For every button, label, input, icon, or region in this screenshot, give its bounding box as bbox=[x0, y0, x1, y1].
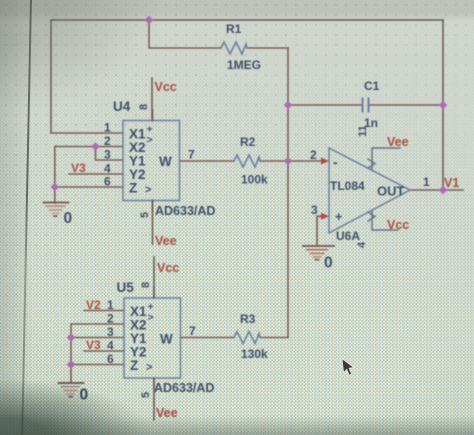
U4 pin number 7 bbox=[188, 148, 195, 162]
wire U5 pin2 bbox=[71, 324, 124, 382]
label R3 bbox=[240, 312, 256, 326]
wire U5 pin1 V2 bbox=[84, 310, 124, 312]
junction C1 right bbox=[439, 101, 447, 109]
op-amp U6A triangle bbox=[329, 148, 410, 233]
wire U5 Vee power bbox=[153, 378, 155, 420]
U5 pin number 6 bbox=[107, 352, 114, 366]
value 1n bbox=[364, 116, 378, 130]
U5 pin names bbox=[130, 304, 173, 373]
wire U5 pin6 bbox=[71, 364, 124, 366]
opamp pin number 2 bbox=[310, 148, 317, 162]
U4 pin number 2 bbox=[104, 134, 111, 148]
net label Vcc opamp bbox=[387, 218, 409, 232]
label OUT bbox=[377, 184, 405, 199]
junction inverting node bbox=[284, 157, 292, 165]
value 130k bbox=[241, 347, 268, 361]
wire U5 W to R3 bbox=[181, 337, 235, 339]
wire U4 W to R2 bbox=[180, 160, 235, 162]
multiplier U5 box bbox=[124, 298, 181, 378]
net label V2 U5 bbox=[86, 298, 101, 312]
wire R1 branch bbox=[149, 20, 288, 48]
label TL084 bbox=[330, 179, 365, 193]
wire R2 to opamp pin2 bbox=[260, 160, 322, 162]
wire opamp Vcc power bbox=[372, 210, 398, 230]
U5 X1 plus mark bbox=[148, 301, 154, 324]
wire middle vertical (R1/R3 to inverting node) bbox=[287, 48, 289, 338]
value 1MEG bbox=[227, 58, 261, 72]
ground U5 bbox=[59, 383, 84, 397]
U5 pin number 2 bbox=[107, 312, 114, 326]
wire opamp pin3 ground bbox=[317, 216, 322, 245]
wire U4 pin4 V3 bbox=[69, 173, 123, 175]
U5 pin number 5 rotated bbox=[140, 392, 152, 398]
mouse cursor bbox=[339, 356, 359, 380]
U5 pin number 8 rotated bbox=[140, 282, 152, 288]
net label Vcc U5 bbox=[157, 261, 179, 275]
resistor R3 bbox=[234, 332, 260, 344]
wire R3 to inverting node bbox=[260, 337, 288, 339]
junction U5 pin6 bbox=[67, 360, 75, 368]
wire U4 pin1 (X1 feedback) bbox=[51, 132, 123, 134]
U4 pin number 8 rotated bbox=[138, 104, 150, 110]
value 100k bbox=[241, 173, 268, 187]
wire U4 Vee power bbox=[152, 201, 154, 245]
junction U4 pin2 bbox=[91, 142, 99, 150]
label U5 bbox=[117, 280, 135, 295]
opamp plus mark bbox=[335, 210, 342, 224]
wire U5 pin3 bbox=[71, 337, 124, 339]
net label Vcc U4 bbox=[155, 80, 177, 94]
wire U5 Vcc power bbox=[153, 257, 155, 298]
wire U4 pin2 bbox=[55, 146, 123, 148]
opamp minus mark bbox=[333, 154, 338, 170]
part name AD633/AD U5 bbox=[154, 381, 214, 395]
opamp pin number 4 rotated bbox=[356, 241, 368, 248]
U5 pin5 stub bbox=[153, 378, 155, 389]
U4 Z mark bbox=[145, 184, 151, 196]
wire opamp output bbox=[410, 189, 463, 191]
opamp pin number 11 rotated bbox=[357, 125, 369, 137]
opamp pin number 3 bbox=[311, 203, 318, 217]
resistor R2 bbox=[234, 155, 260, 167]
opamp pin number 1 bbox=[423, 175, 430, 189]
U5 pin number 1 bbox=[107, 298, 114, 312]
wire U4 pin6 ground bbox=[55, 147, 123, 204]
label R1 bbox=[226, 22, 242, 36]
U4 pin number 3 bbox=[104, 148, 111, 162]
junction output V1 bbox=[439, 186, 447, 194]
U5 pin8 stub bbox=[153, 287, 155, 298]
multiplier U4 box bbox=[123, 121, 180, 201]
junction top wire R1 bbox=[145, 16, 153, 24]
part name AD633/AD U4 bbox=[155, 204, 215, 218]
wire opamp Vee power bbox=[372, 148, 400, 170]
net label V3 U5 bbox=[86, 338, 101, 352]
net label 0 U4 ground bbox=[64, 210, 73, 227]
wire C1 left bbox=[288, 104, 362, 106]
wire right vertical (output to top) bbox=[442, 20, 444, 190]
U5 pin number 3 bbox=[107, 325, 114, 339]
wire U4 Vcc power bbox=[151, 78, 153, 121]
U4 pin names bbox=[129, 127, 172, 196]
op-amp pin11 power stub bbox=[368, 159, 375, 168]
wire C1 right bbox=[370, 104, 444, 106]
op-amp pin4 power stub bbox=[368, 212, 375, 221]
net label 0 opamp ground bbox=[324, 255, 333, 272]
net label V3 U4 bbox=[71, 161, 86, 175]
net label Vee U5 bbox=[156, 406, 178, 420]
wire U5 pin4 V3 bbox=[84, 350, 124, 352]
U4 pin5 stub bbox=[152, 201, 154, 212]
U4 pin number 1 bbox=[104, 121, 111, 135]
wire top feedback bbox=[51, 20, 443, 133]
junction U4 pin6 bbox=[51, 183, 59, 191]
net label 0 U5 ground bbox=[80, 387, 89, 404]
arrow opamp pin3 bbox=[321, 213, 329, 220]
label U4 bbox=[113, 99, 131, 114]
U5 pin number 7 bbox=[189, 324, 196, 338]
label C1 bbox=[364, 79, 380, 93]
resistor R1 bbox=[221, 42, 247, 54]
arrow opamp pin2 bbox=[321, 158, 329, 165]
ground opamp pin3 bbox=[303, 246, 334, 260]
junction U5 pin3 bbox=[67, 333, 75, 341]
capacitor C1 bbox=[363, 99, 369, 112]
net label V1 bbox=[444, 176, 459, 190]
wire U4 pin2-pin3 jog bbox=[96, 147, 124, 161]
U5 pin number 4 bbox=[107, 339, 114, 353]
net label Vee U4 bbox=[155, 234, 177, 248]
label U6A bbox=[336, 229, 360, 243]
junction C1 left bbox=[284, 101, 292, 109]
U4 pin number 5 rotated bbox=[139, 212, 151, 218]
U4 pin number 6 bbox=[104, 175, 111, 189]
U4 pin8 stub bbox=[152, 110, 154, 121]
net label Vee opamp bbox=[387, 135, 409, 149]
U5 Z mark bbox=[146, 362, 152, 374]
U4 pin number 4 bbox=[104, 162, 111, 176]
ground U4 bbox=[44, 203, 69, 217]
label R2 bbox=[240, 135, 256, 149]
U4 X1 plus mark bbox=[147, 124, 153, 147]
